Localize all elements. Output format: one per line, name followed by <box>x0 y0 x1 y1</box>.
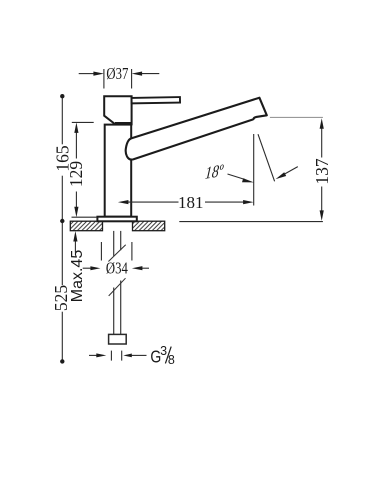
svg-text:8: 8 <box>168 353 175 367</box>
svg-text:129: 129 <box>66 161 86 188</box>
svg-text:137: 137 <box>312 158 332 185</box>
svg-text:Ø34: Ø34 <box>106 260 128 278</box>
svg-text:18º: 18º <box>204 161 225 183</box>
svg-text:Ø37: Ø37 <box>106 66 128 84</box>
svg-text:181: 181 <box>178 193 204 212</box>
svg-text:Max.45: Max.45 <box>69 250 86 303</box>
svg-text:3: 3 <box>160 344 167 358</box>
